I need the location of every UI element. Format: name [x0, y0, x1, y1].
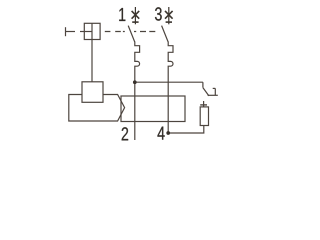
node junction dot pole1	[133, 80, 137, 84]
toroid core rectangle	[121, 96, 185, 122]
node junction dot terminal 4	[166, 131, 170, 135]
test button actuator right	[208, 88, 218, 95]
terminal 3	[165, 7, 173, 24]
test button box	[84, 23, 100, 39]
relay pentagon	[69, 95, 125, 122]
pole 1 switch blade	[128, 26, 135, 42]
resistor R test	[200, 107, 208, 126]
relay square	[82, 82, 103, 103]
pole 2 conductor meander	[168, 42, 173, 134]
test switch	[203, 82, 209, 96]
dashed mechanical linkage	[105, 31, 156, 33]
label 4	[157, 127, 164, 140]
pole 2 switch blade	[162, 26, 169, 42]
test button actuator left tee	[66, 27, 85, 36]
terminal 1	[132, 7, 140, 24]
pole 1 conductor meander	[135, 42, 140, 141]
wire test button to relay square	[91, 39, 93, 82]
label 2	[122, 127, 128, 140]
wire resistor to node 4	[168, 126, 204, 134]
label 3	[155, 7, 162, 20]
label 1	[119, 8, 125, 21]
wire node1 to test switch	[135, 81, 203, 83]
test switch fixed contact	[200, 101, 207, 107]
